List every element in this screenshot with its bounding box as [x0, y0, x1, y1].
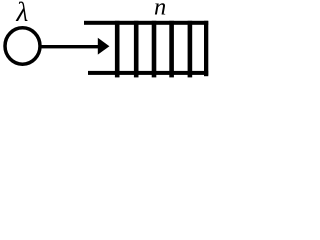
- arrowhead: [98, 38, 110, 55]
- queue slot divider 2: [134, 21, 139, 78]
- queue slot divider 1: [115, 21, 120, 78]
- queue right end line: [204, 21, 208, 76]
- queue slot divider 4: [169, 21, 174, 78]
- queue slot divider 3: [152, 21, 157, 78]
- queue top line: [84, 21, 208, 25]
- source circle: [5, 28, 40, 64]
- svg-text:λ: λ: [15, 0, 28, 27]
- queue slot divider 5: [188, 21, 193, 78]
- queue bottom line: [88, 71, 208, 75]
- svg-text:n: n: [154, 0, 166, 20]
- wire (arrow shaft): [41, 45, 100, 48]
